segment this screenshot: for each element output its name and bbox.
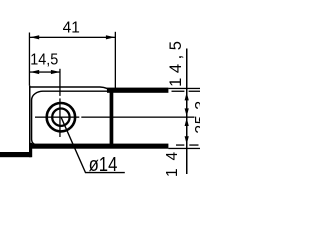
hole centerline horizontal <box>35 117 79 118</box>
right extension line top inner surface <box>172 91 185 92</box>
svg-text:25,3: 25,3 <box>193 101 200 134</box>
bracket top flange bar <box>107 88 168 93</box>
svg-text:ø14: ø14 <box>89 154 118 176</box>
bracket top edge <box>29 87 111 92</box>
right extension line bottom inner surface <box>176 144 184 145</box>
arrow 41 left <box>30 35 39 39</box>
hole inner circle <box>52 109 69 126</box>
extension line left (41 dim) <box>29 33 30 86</box>
arrow 14,5 right <box>51 70 60 74</box>
dimension line 14,5 <box>30 71 60 72</box>
svg-text:14,5: 14,5 <box>167 41 185 87</box>
right extension line bottom surface <box>168 148 200 149</box>
hole outer circle <box>47 103 75 131</box>
arrow 14,5 left <box>30 70 39 74</box>
hole centerline horizontal right part <box>81 117 194 118</box>
right dimension line <box>186 49 188 175</box>
right extension line top inner surface right piece <box>189 91 200 92</box>
bracket left edge lower thick part <box>29 143 32 157</box>
hole centerline vertical <box>59 69 60 96</box>
right extension line top surface <box>168 88 200 89</box>
arrow 41 right <box>106 35 115 39</box>
bracket inner rounded contour <box>32 91 111 145</box>
arrow up from hole center <box>185 118 189 126</box>
svg-text:41: 41 <box>63 20 80 37</box>
extension line right (41 dim) <box>115 32 116 91</box>
svg-text:14,5: 14,5 <box>30 51 58 68</box>
arrow down to inner bottom <box>185 136 189 144</box>
arrow down to hole center <box>185 108 189 116</box>
bracket left edge <box>29 86 31 157</box>
dimension line 41 <box>30 37 115 38</box>
bracket left foot bar <box>0 152 31 157</box>
bracket bottom bar <box>30 144 169 149</box>
bracket right edge bar <box>110 88 114 148</box>
right extension line bottom inner surface right piece <box>189 144 198 145</box>
leader line hole <box>61 118 125 173</box>
arrow up to inner top <box>185 92 189 100</box>
hole centerline vertical lower <box>59 98 60 137</box>
